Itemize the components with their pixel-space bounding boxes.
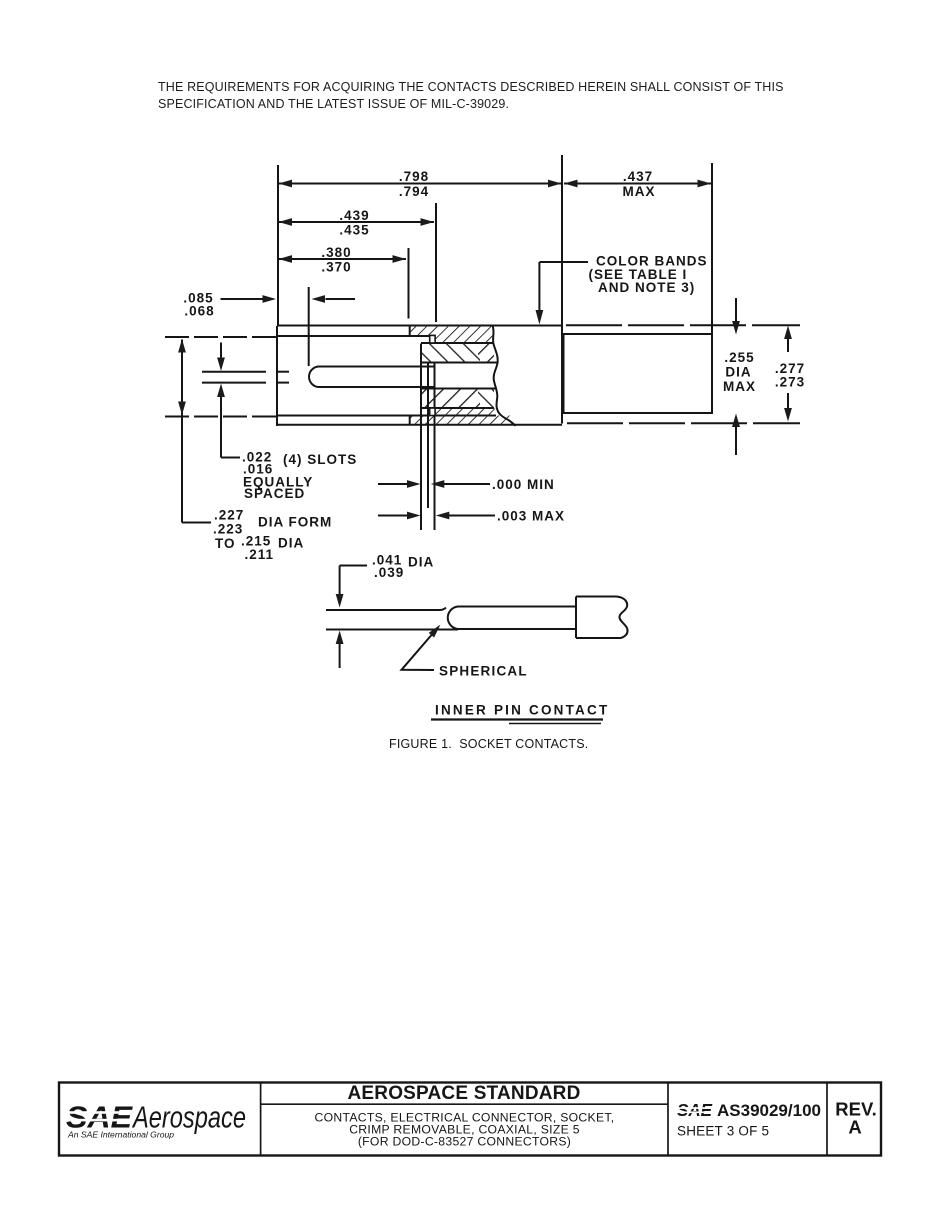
svg-text:FIGURE 1. SOCKET CONTACTS.: FIGURE 1. SOCKET CONTACTS. — [389, 737, 588, 751]
extension line left (.798 left / body front face) — [277, 165, 279, 325]
svg-text:.227: .227 — [214, 508, 244, 523]
svg-text:.255: .255 — [724, 350, 754, 365]
inner pin body — [448, 607, 576, 630]
dimension .085/.068 — [221, 298, 264, 300]
dimension .798/.794 — [279, 183, 562, 185]
.003 MAX arrows — [407, 512, 421, 520]
svg-text:An SAE International Group: An SAE International Group — [67, 1130, 174, 1140]
svg-text:MAX: MAX — [623, 184, 656, 199]
svg-text:.039: .039 — [374, 565, 404, 580]
dimension .227 line — [181, 340, 183, 523]
svg-text:.370: .370 — [321, 260, 351, 275]
svg-text:DIA: DIA — [408, 555, 434, 570]
.437 arrows — [564, 180, 578, 188]
insert band upper (chevron) — [421, 344, 480, 362]
svg-text:.435: .435 — [339, 223, 369, 238]
spherical arrow — [429, 625, 441, 638]
crimp barrel (rear) — [564, 334, 713, 413]
svg-text:TO: TO — [215, 536, 236, 551]
dimension texts — [183, 169, 805, 394]
inner pin crimp barrel — [576, 597, 627, 639]
inner pin contact underline — [431, 718, 603, 720]
.085 arrows — [263, 295, 277, 303]
insulator hatch boundaries — [409, 326, 411, 336]
svg-text:.211: .211 — [245, 547, 275, 562]
.227 arrows — [178, 339, 186, 353]
dimension .003 MAX — [378, 515, 407, 517]
insulator band bottom — [435, 409, 496, 416]
inner pin: .041 leader — [340, 565, 367, 567]
inner pin wire — [326, 608, 446, 610]
spherical leader — [402, 635, 435, 670]
svg-text:.380: .380 — [321, 245, 351, 260]
svg-text:SPHERICAL: SPHERICAL — [439, 664, 528, 679]
slot extension lines — [202, 371, 266, 373]
svg-text:.000 MIN: .000 MIN — [492, 477, 555, 492]
break (wavy) edge — [493, 326, 516, 427]
.277 arrows — [784, 326, 792, 340]
svg-text:.798: .798 — [399, 169, 429, 184]
.041 arrows — [336, 594, 344, 608]
dimension .380/.370 — [279, 258, 407, 260]
extension dashes right (.277) — [566, 324, 800, 326]
svg-text:DIA: DIA — [725, 365, 751, 380]
extension dashes left (.227) — [165, 336, 276, 338]
svg-text:.003 MAX: .003 MAX — [497, 509, 565, 524]
svg-text:.794: .794 — [399, 184, 429, 199]
insulator band top — [410, 324, 493, 335]
gap gauge lines below body — [420, 425, 422, 530]
arrowheads — [178, 180, 792, 644]
.000 MIN arrows — [407, 480, 421, 488]
svg-text:AS39029/100: AS39029/100 — [717, 1101, 821, 1120]
color band leader arrow — [536, 310, 544, 325]
svg-text:DIA FORM: DIA FORM — [258, 515, 332, 530]
dimension .255 arrow lines — [735, 298, 737, 322]
extension line x=562 (.798 right / color band right) — [561, 155, 563, 424]
svg-text:.223: .223 — [213, 522, 243, 537]
extension line x=436 (.439) — [435, 203, 437, 322]
.380 arrows — [279, 255, 293, 263]
svg-text:(FOR DOD-C-83527 CONNECTORS): (FOR DOD-C-83527 CONNECTORS) — [358, 1134, 571, 1148]
svg-text:.439: .439 — [339, 208, 369, 223]
color bands leader — [539, 261, 588, 263]
svg-text:.437: .437 — [623, 169, 653, 184]
.022 arrows — [217, 358, 225, 372]
dimension .000 MIN — [378, 483, 407, 485]
insert band lower (chevron) — [421, 389, 480, 407]
svg-text:(4) SLOTS: (4) SLOTS — [283, 452, 357, 467]
.798 arrows — [279, 180, 293, 188]
svg-text:INNER PIN CONTACT: INNER PIN CONTACT — [435, 703, 609, 718]
svg-text:SAE: SAE — [677, 1100, 713, 1120]
extension line x=408.5 (.380) — [408, 248, 410, 319]
svg-text:.068: .068 — [184, 304, 214, 319]
.255 arrows — [732, 321, 740, 335]
extension line x=712 (.437 right / barrel end) — [711, 163, 713, 334]
socket inner pin (section) — [309, 367, 434, 388]
retention notch bottom — [430, 408, 435, 416]
svg-text:.273: .273 — [775, 375, 805, 390]
svg-text:A: A — [848, 1117, 861, 1138]
dimension .437 MAX — [564, 183, 711, 185]
.439 arrows — [279, 218, 293, 226]
retention notch top — [430, 335, 435, 343]
svg-text:SPACED: SPACED — [244, 486, 305, 501]
dimension .439/.435 — [279, 221, 435, 223]
dimension .277 arrow lines — [787, 338, 789, 352]
svg-text:AEROSPACE STANDARD: AEROSPACE STANDARD — [347, 1083, 580, 1104]
dimension .022 line — [220, 343, 222, 359]
header paragraph — [158, 79, 858, 113]
socket body outline — [276, 326, 278, 426]
extension line x=308.7 (.085) — [308, 287, 310, 366]
svg-text:AND NOTE 3): AND NOTE 3) — [598, 280, 695, 295]
svg-text:DIA: DIA — [278, 536, 304, 551]
svg-text:SHEET 3 OF 5: SHEET 3 OF 5 — [677, 1124, 769, 1139]
hatching fills — [410, 324, 512, 424]
svg-text:MAX: MAX — [723, 379, 756, 394]
